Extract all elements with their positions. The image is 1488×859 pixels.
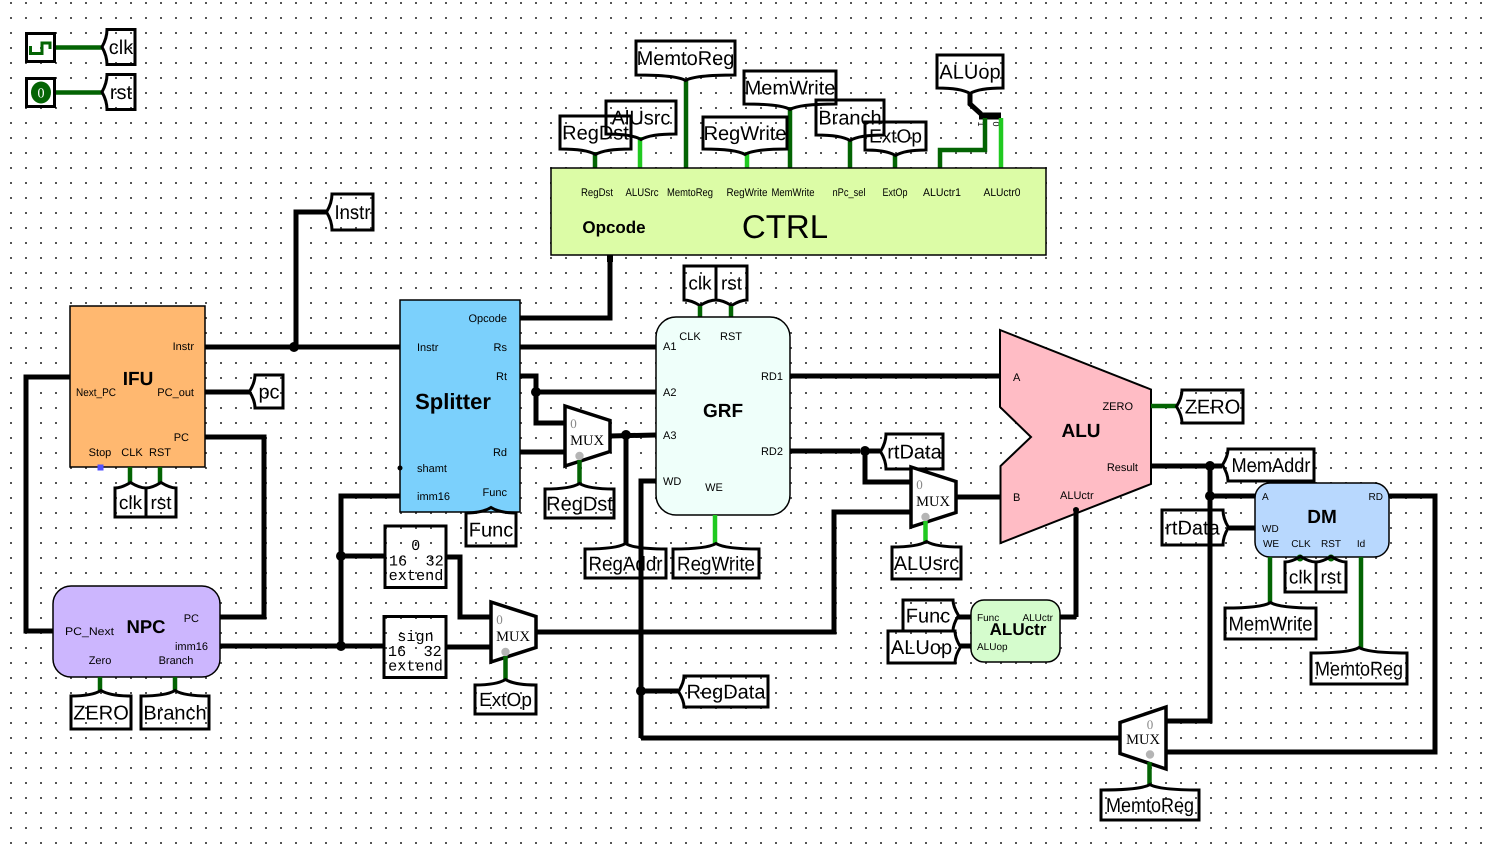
svg-text:clk: clk: [109, 37, 134, 59]
tunnel Instr: [327, 194, 374, 230]
svg-text:Rs: Rs: [494, 342, 508, 354]
tunnel Branch (top): [816, 100, 884, 141]
ALU: [1000, 330, 1151, 543]
svg-text:PC: PC: [174, 432, 189, 444]
svg-text:imm16: imm16: [417, 491, 450, 503]
svg-text:ZERO: ZERO: [1102, 401, 1133, 413]
svg-text:Result: Result: [1107, 462, 1138, 474]
svg-text:Func: Func: [977, 613, 999, 624]
subcircuit Splitter: [400, 300, 520, 512]
svg-text:ALU: ALU: [1061, 421, 1100, 442]
tunnel Func (to ALUctr): [903, 600, 959, 631]
wire to DM A: [1210, 494, 1256, 499]
wire NPC Branch: [173, 677, 178, 691]
tunnel MemtoReg (top): [636, 41, 735, 81]
wire MemWrite to CTRL: [788, 107, 793, 169]
wire Instr tunnel to node: [296, 212, 326, 347]
tunnel clk: [102, 30, 135, 65]
svg-text:ALUctr: ALUctr: [1022, 613, 1053, 624]
svg-text:ALUSrc: ALUSrc: [626, 187, 659, 199]
wire Rt to GRF A2: [536, 390, 656, 395]
svg-text:WD: WD: [1262, 524, 1279, 535]
svg-text:ALUop: ALUop: [939, 62, 1000, 84]
wire Opcode to CTRL: [520, 258, 610, 318]
svg-text:ZERO: ZERO: [1185, 397, 1241, 419]
svg-text:RST: RST: [720, 331, 742, 343]
node A3 junction: [621, 430, 631, 440]
svg-text:Instr: Instr: [173, 341, 195, 353]
svg-text:pc: pc: [258, 382, 279, 404]
svg-text:MemtoReg: MemtoReg: [667, 187, 713, 199]
tunnel Func (under Splitter): [466, 508, 516, 547]
svg-text:0: 0: [916, 477, 923, 492]
wire ALUctr to ALU: [1074, 508, 1079, 617]
svg-text:RegDst: RegDst: [546, 494, 613, 516]
wire ALU Result: [1151, 464, 1210, 469]
svg-text:ALUop: ALUop: [977, 642, 1008, 653]
pin DM CLK dot: [1297, 555, 1304, 562]
svg-text:B: B: [1013, 492, 1020, 504]
wire MUX out to GRF A3: [610, 435, 656, 436]
wire IFU Instr to Splitter: [205, 345, 400, 350]
pin Opcode stub: [607, 255, 613, 262]
wire MUX ExtOp out to MUX ALUsrc in1: [536, 512, 911, 632]
tunnel RegWrite (top): [703, 117, 787, 155]
svg-text:RD2: RD2: [761, 446, 783, 458]
svg-text:ALUctr0: ALUctr0: [984, 187, 1021, 199]
wire Rt bend: [520, 376, 536, 392]
node Result junction: [1205, 461, 1215, 471]
svg-text:ALUsrc: ALUsrc: [894, 553, 960, 575]
wire ALUsrc to CTRL: [638, 137, 643, 169]
svg-text:MemtoReg: MemtoReg: [1106, 795, 1194, 817]
svg-text:nPc_sel: nPc_sel: [833, 187, 866, 199]
svg-text:rtData: rtData: [1165, 518, 1220, 540]
wire Result down to MUX MemtoReg in0: [1166, 466, 1210, 721]
wire MUX MemtoReg select: [1147, 762, 1152, 786]
svg-text:CLK: CLK: [1291, 539, 1311, 550]
svg-text:ALUctr1: ALUctr1: [923, 187, 961, 199]
tunnel MemAddr: [1223, 449, 1315, 481]
mux MemtoReg: [1120, 707, 1166, 769]
svg-text:shamt: shamt: [417, 463, 447, 475]
bit extender 0/16-32: [385, 526, 446, 588]
svg-text:GRF: GRF: [703, 401, 743, 422]
wire Func to ALUctr: [958, 615, 971, 620]
svg-text:WE: WE: [1263, 539, 1279, 550]
wire ALUop to ALUctr: [960, 644, 971, 649]
wire MUX ALUsrc select: [923, 521, 928, 543]
tunnel clk (under IFU): [115, 483, 146, 518]
svg-text:extend: extend: [388, 658, 443, 676]
pin shamt (unconnected): [398, 466, 403, 471]
svg-text:MUX: MUX: [496, 629, 530, 645]
wire clk to GRF CLK: [698, 306, 703, 317]
tunnel ZERO (NPC): [71, 691, 131, 730]
wire WD vertical: [641, 481, 656, 738]
wire NPC PC_Next to IFU: [26, 377, 70, 631]
tunnel RegDst (top): [560, 116, 631, 155]
node Rt junction: [531, 387, 541, 397]
wire IFU RST: [158, 467, 163, 483]
wire MUX ExtOp select: [503, 656, 508, 680]
svg-text:MemWrite: MemWrite: [772, 187, 815, 199]
wire Rs to GRF A1: [520, 345, 656, 350]
svg-text:RD: RD: [1369, 492, 1383, 503]
wire ExtOp to CTRL: [893, 154, 898, 169]
tunnel RegDst (select): [545, 484, 614, 519]
node imm16 to sign-extend: [336, 641, 346, 651]
svg-text:MemWrite: MemWrite: [1229, 614, 1313, 636]
svg-text:imm16: imm16: [175, 641, 208, 653]
wire sign-extend to MUX ExtOp in1: [445, 645, 491, 650]
svg-text:ALUop: ALUop: [891, 637, 952, 659]
svg-text:MemWrite: MemWrite: [745, 78, 836, 100]
wire RD2: [790, 449, 860, 454]
svg-text:Zero: Zero: [89, 655, 112, 667]
svg-text:Branch: Branch: [159, 655, 194, 667]
svg-text:A1: A1: [663, 341, 676, 353]
svg-text:0: 0: [411, 537, 420, 555]
svg-text:NPC: NPC: [126, 616, 165, 637]
subcircuit NPC: [53, 586, 220, 677]
wire imm16 to NPC: [220, 644, 341, 649]
mux RegDst: [565, 406, 610, 466]
svg-text:Splitter: Splitter: [415, 389, 491, 414]
svg-text:0: 0: [496, 612, 503, 627]
tunnel ALUop (top): [937, 55, 1003, 94]
svg-text:DM: DM: [1307, 507, 1337, 528]
wire imm16 down: [341, 496, 400, 646]
tunnel rtData (GRF): [881, 434, 944, 469]
tunnel pc: [250, 375, 284, 408]
wire ALUctr1 to CTRL: [940, 118, 985, 169]
svg-text:RegWrite: RegWrite: [727, 187, 768, 199]
wire GRF WE to RegWrite: [713, 515, 718, 545]
wire to RegData tunnel: [641, 689, 678, 694]
svg-text:CLK: CLK: [121, 447, 143, 459]
wire to sign-extend input: [341, 644, 385, 649]
svg-text:Func: Func: [906, 606, 950, 628]
subcircuit IFU: [70, 306, 205, 467]
svg-text:0: 0: [1147, 717, 1154, 732]
clock input: [27, 34, 55, 62]
svg-text:CTRL: CTRL: [742, 208, 828, 245]
svg-text:RegAddr: RegAddr: [589, 554, 663, 576]
tunnel rst (under IFU): [146, 483, 176, 518]
svg-text:Id: Id: [1357, 539, 1365, 550]
splitter ALUop: [970, 92, 1001, 127]
wire Rt to MUX RegDst in0: [536, 392, 565, 423]
tunnel ALUsrc (top): [606, 101, 676, 140]
node imm16 to 0-extend: [336, 551, 346, 561]
svg-text:rst: rst: [110, 82, 133, 104]
svg-text:RST: RST: [1321, 539, 1341, 550]
subcircuit CTRL: [551, 168, 1046, 255]
svg-text:clk: clk: [1289, 568, 1313, 589]
mux ALUsrc: [911, 467, 956, 527]
pin ALUctr dot: [1073, 507, 1079, 513]
svg-text:WD: WD: [663, 476, 681, 488]
wire MUX MemtoReg out to WD: [641, 736, 1120, 741]
svg-text:extend: extend: [389, 567, 444, 585]
svg-text:clk: clk: [688, 274, 712, 295]
wire MUX RegDst select: [577, 460, 582, 485]
tunnel ExtOp (top): [865, 122, 926, 156]
wire 0-extend to MUX ExtOp in0: [445, 557, 491, 617]
svg-text:clk: clk: [119, 493, 143, 514]
svg-text:A3: A3: [663, 430, 676, 442]
wire IFU PC to NPC: [205, 437, 264, 617]
wire rst to GRF RST: [729, 306, 734, 317]
svg-text:rst: rst: [1320, 568, 1342, 589]
svg-text:RST: RST: [149, 447, 171, 459]
node DM A junction: [1205, 491, 1215, 501]
tunnel MemtoReg (select): [1101, 785, 1199, 821]
tunnel MemWrite (top): [744, 71, 836, 110]
svg-text:ExtOp: ExtOp: [869, 127, 922, 148]
svg-text:Rt: Rt: [496, 371, 507, 383]
node Instr junction: [289, 342, 299, 352]
tunnel ALUsrc (select): [892, 542, 961, 580]
svg-text:MUX: MUX: [570, 433, 604, 449]
bit extender sign/16-32: [384, 617, 446, 678]
wire DM RD to MUX MemtoReg in1: [1166, 496, 1435, 752]
tunnel MemtoReg (DM): [1311, 648, 1407, 685]
svg-text:Opcode: Opcode: [468, 313, 507, 325]
tunnel MemWrite (DM): [1225, 603, 1316, 640]
svg-text:rtData: rtData: [887, 442, 942, 464]
svg-text:CLK: CLK: [679, 331, 701, 343]
tunnel clk (above GRF): [684, 266, 716, 306]
svg-text:ZERO: ZERO: [73, 703, 129, 725]
wire RegWrite to CTRL: [745, 152, 750, 169]
subcircuit DM: [1255, 483, 1389, 557]
subcircuit GRF: [656, 317, 790, 515]
svg-text:PC_out: PC_out: [157, 387, 194, 399]
svg-text:Rd: Rd: [493, 447, 507, 459]
svg-text:Func: Func: [483, 487, 508, 499]
tunnel RegData: [679, 676, 769, 707]
svg-text:RD1: RD1: [761, 371, 783, 383]
pin DM RST dot: [1328, 555, 1335, 562]
wire clk: [56, 45, 102, 50]
node rtData junction: [860, 446, 870, 456]
svg-text:RegData: RegData: [687, 682, 767, 704]
svg-text:A: A: [1013, 372, 1021, 384]
svg-text:Opcode: Opcode: [582, 218, 645, 237]
wire RegDst to CTRL: [593, 152, 598, 169]
svg-text:RegWrite: RegWrite: [704, 123, 787, 145]
wire RD2 to MUX ALUsrc in0: [865, 451, 911, 482]
wire IFU PC_out to pc tunnel: [205, 390, 250, 395]
subcircuit ALUctr: [971, 600, 1060, 662]
tunnel rst (under DM): [1316, 557, 1346, 593]
tunnel rst (above GRF): [716, 266, 747, 306]
wire NPC Zero: [98, 677, 103, 691]
svg-text:RegDst: RegDst: [581, 187, 613, 199]
svg-text:IFU: IFU: [123, 369, 154, 390]
svg-text:PC: PC: [184, 613, 199, 625]
svg-text:rst: rst: [150, 493, 172, 514]
wire Rd to MUX RegDst in1: [520, 450, 565, 455]
svg-text:0: 0: [570, 416, 577, 431]
svg-text:MUX: MUX: [916, 494, 950, 510]
svg-text:Stop: Stop: [89, 447, 112, 459]
tunnel ZERO (ALU): [1177, 390, 1244, 423]
wire rtData to DM WD: [1229, 526, 1255, 531]
svg-text:PC_Next: PC_Next: [65, 626, 114, 638]
tunnel RegAddr: [585, 544, 666, 579]
tunnel rst: [102, 75, 135, 110]
tunnel ALUop (to ALUctr): [888, 631, 961, 663]
wire DM WE: [1268, 557, 1273, 604]
svg-text:RegWrite: RegWrite: [677, 554, 755, 576]
wire MemtoReg to CTRL: [684, 79, 689, 169]
wire rst: [56, 90, 102, 95]
wire ALUctr output: [1060, 615, 1076, 620]
svg-text:MemAddr: MemAddr: [1232, 455, 1311, 477]
wire Branch to CTRL: [848, 139, 853, 169]
svg-text:A2: A2: [663, 387, 676, 399]
svg-text:Next_PC: Next_PC: [76, 387, 116, 399]
tunnel Branch (NPC): [141, 691, 209, 730]
svg-text:WE: WE: [705, 482, 723, 494]
tunnel clk (under DM): [1285, 557, 1316, 593]
svg-text:A: A: [1262, 492, 1269, 503]
wire ALU ZERO to tunnel: [1151, 404, 1177, 409]
node RegData junction: [636, 686, 646, 696]
svg-text:MUX: MUX: [1126, 732, 1160, 748]
svg-text:MemtoReg: MemtoReg: [637, 48, 735, 70]
wire ALUctr0 to CTRL: [999, 118, 1004, 169]
wire to rtData tunnel: [865, 449, 880, 454]
tunnel rtData (to DM): [1162, 510, 1229, 545]
wire MUX ALUsrc out to ALU B: [956, 495, 1000, 500]
svg-text:Func: Func: [469, 520, 513, 542]
svg-text:Instr: Instr: [335, 202, 371, 224]
svg-text:ExtOp: ExtOp: [883, 187, 908, 199]
wire IFU CLK: [128, 467, 133, 483]
wire to 0-extend input: [341, 554, 386, 559]
constant 0: [27, 79, 55, 107]
wire to MemAddr tunnel: [1210, 464, 1222, 469]
svg-text:rst: rst: [721, 274, 743, 295]
wire A3 to RegAddr tunnel: [624, 435, 629, 544]
svg-text:ALUctr: ALUctr: [1060, 490, 1094, 502]
wire DM Id: [1359, 557, 1364, 648]
pin Stop (unconnected, blue): [98, 465, 104, 471]
tunnel RegWrite (GRF): [673, 544, 759, 579]
svg-text:MemtoReg: MemtoReg: [1315, 659, 1403, 681]
svg-text:RegDst: RegDst: [562, 123, 629, 145]
svg-text:0: 0: [38, 87, 45, 102]
tunnel ExtOp (select): [475, 680, 536, 715]
svg-text:Instr: Instr: [417, 342, 439, 354]
svg-text:ExtOp: ExtOp: [479, 690, 532, 711]
svg-text:Branch: Branch: [143, 703, 206, 725]
mux ExtOp: [491, 602, 536, 662]
wire RD1 to ALU A: [790, 374, 1000, 379]
